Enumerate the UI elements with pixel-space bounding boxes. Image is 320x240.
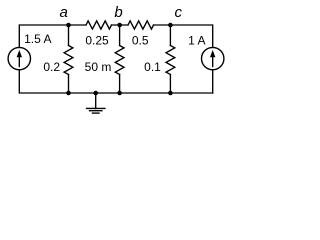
- svg-text:1 A: 1 A: [188, 34, 205, 48]
- wire: R4 to bottom bus: [119, 75, 121, 94]
- node c junction dot: [168, 23, 173, 28]
- node b label: [114, 4, 122, 21]
- bottom junction dot under a: [66, 91, 71, 96]
- node a junction dot: [66, 23, 71, 28]
- value label 1 A: [188, 34, 205, 48]
- svg-text:0.1: 0.1: [144, 60, 161, 74]
- value label 0.2: [43, 60, 60, 74]
- value label 50 m: [85, 60, 112, 74]
- svg-text:0.5: 0.5: [132, 34, 149, 48]
- resistor R2 0.5 (horizontal, node b to node c): [128, 21, 154, 29]
- bottom junction dot under c: [168, 91, 173, 96]
- wire: I2 bottom to bottom wire: [212, 70, 214, 93]
- svg-text:1.5 A: 1.5 A: [24, 32, 51, 46]
- wire: R5 to bottom bus: [169, 75, 171, 94]
- ground junction dot: [93, 91, 98, 96]
- value label 0.1: [144, 60, 161, 74]
- node b junction dot: [117, 23, 122, 28]
- resistor R5 0.1 (vertical under node c): [166, 46, 175, 75]
- wire: between R1 and node b / R2: [112, 24, 129, 26]
- wire: node b down to R4: [119, 25, 121, 46]
- resistor R4 50 m (vertical under node b): [115, 46, 124, 75]
- svg-text:0.2: 0.2: [43, 60, 60, 74]
- wire: node a down to R3: [68, 25, 70, 46]
- current source I2 arrow (up): [210, 50, 215, 67]
- svg-text:0.25: 0.25: [85, 34, 109, 48]
- wire: bottom bus: [69, 92, 213, 94]
- wire: R3 to bottom bus: [68, 75, 70, 94]
- svg-text:b: b: [114, 4, 122, 21]
- svg-text:c: c: [174, 4, 182, 21]
- wire: left branch top + top wire to R1: [19, 25, 86, 48]
- value label 0.5: [132, 34, 149, 48]
- current source I1 1.5 A (circle): [8, 47, 30, 69]
- value label 0.25: [85, 34, 109, 48]
- current source I2 1 A (circle): [202, 47, 224, 69]
- value label 1.5 A: [24, 32, 51, 46]
- wire: I1 bottom to bottom-left corner: [19, 70, 68, 93]
- resistor R1 0.25 (horizontal, node a to node b): [86, 21, 112, 29]
- wire: node c to top-right corner, down to source: [154, 25, 213, 48]
- node c label: [174, 4, 182, 21]
- ground: [87, 93, 105, 113]
- node a label: [60, 4, 68, 21]
- wire: node c down to R5: [169, 25, 171, 46]
- resistor R3 0.2 (vertical under node a): [64, 46, 73, 75]
- svg-text:50 m: 50 m: [85, 60, 112, 74]
- bottom junction dot under b: [117, 91, 122, 96]
- svg-text:a: a: [60, 4, 68, 21]
- current source I1 arrow (up): [17, 50, 22, 67]
